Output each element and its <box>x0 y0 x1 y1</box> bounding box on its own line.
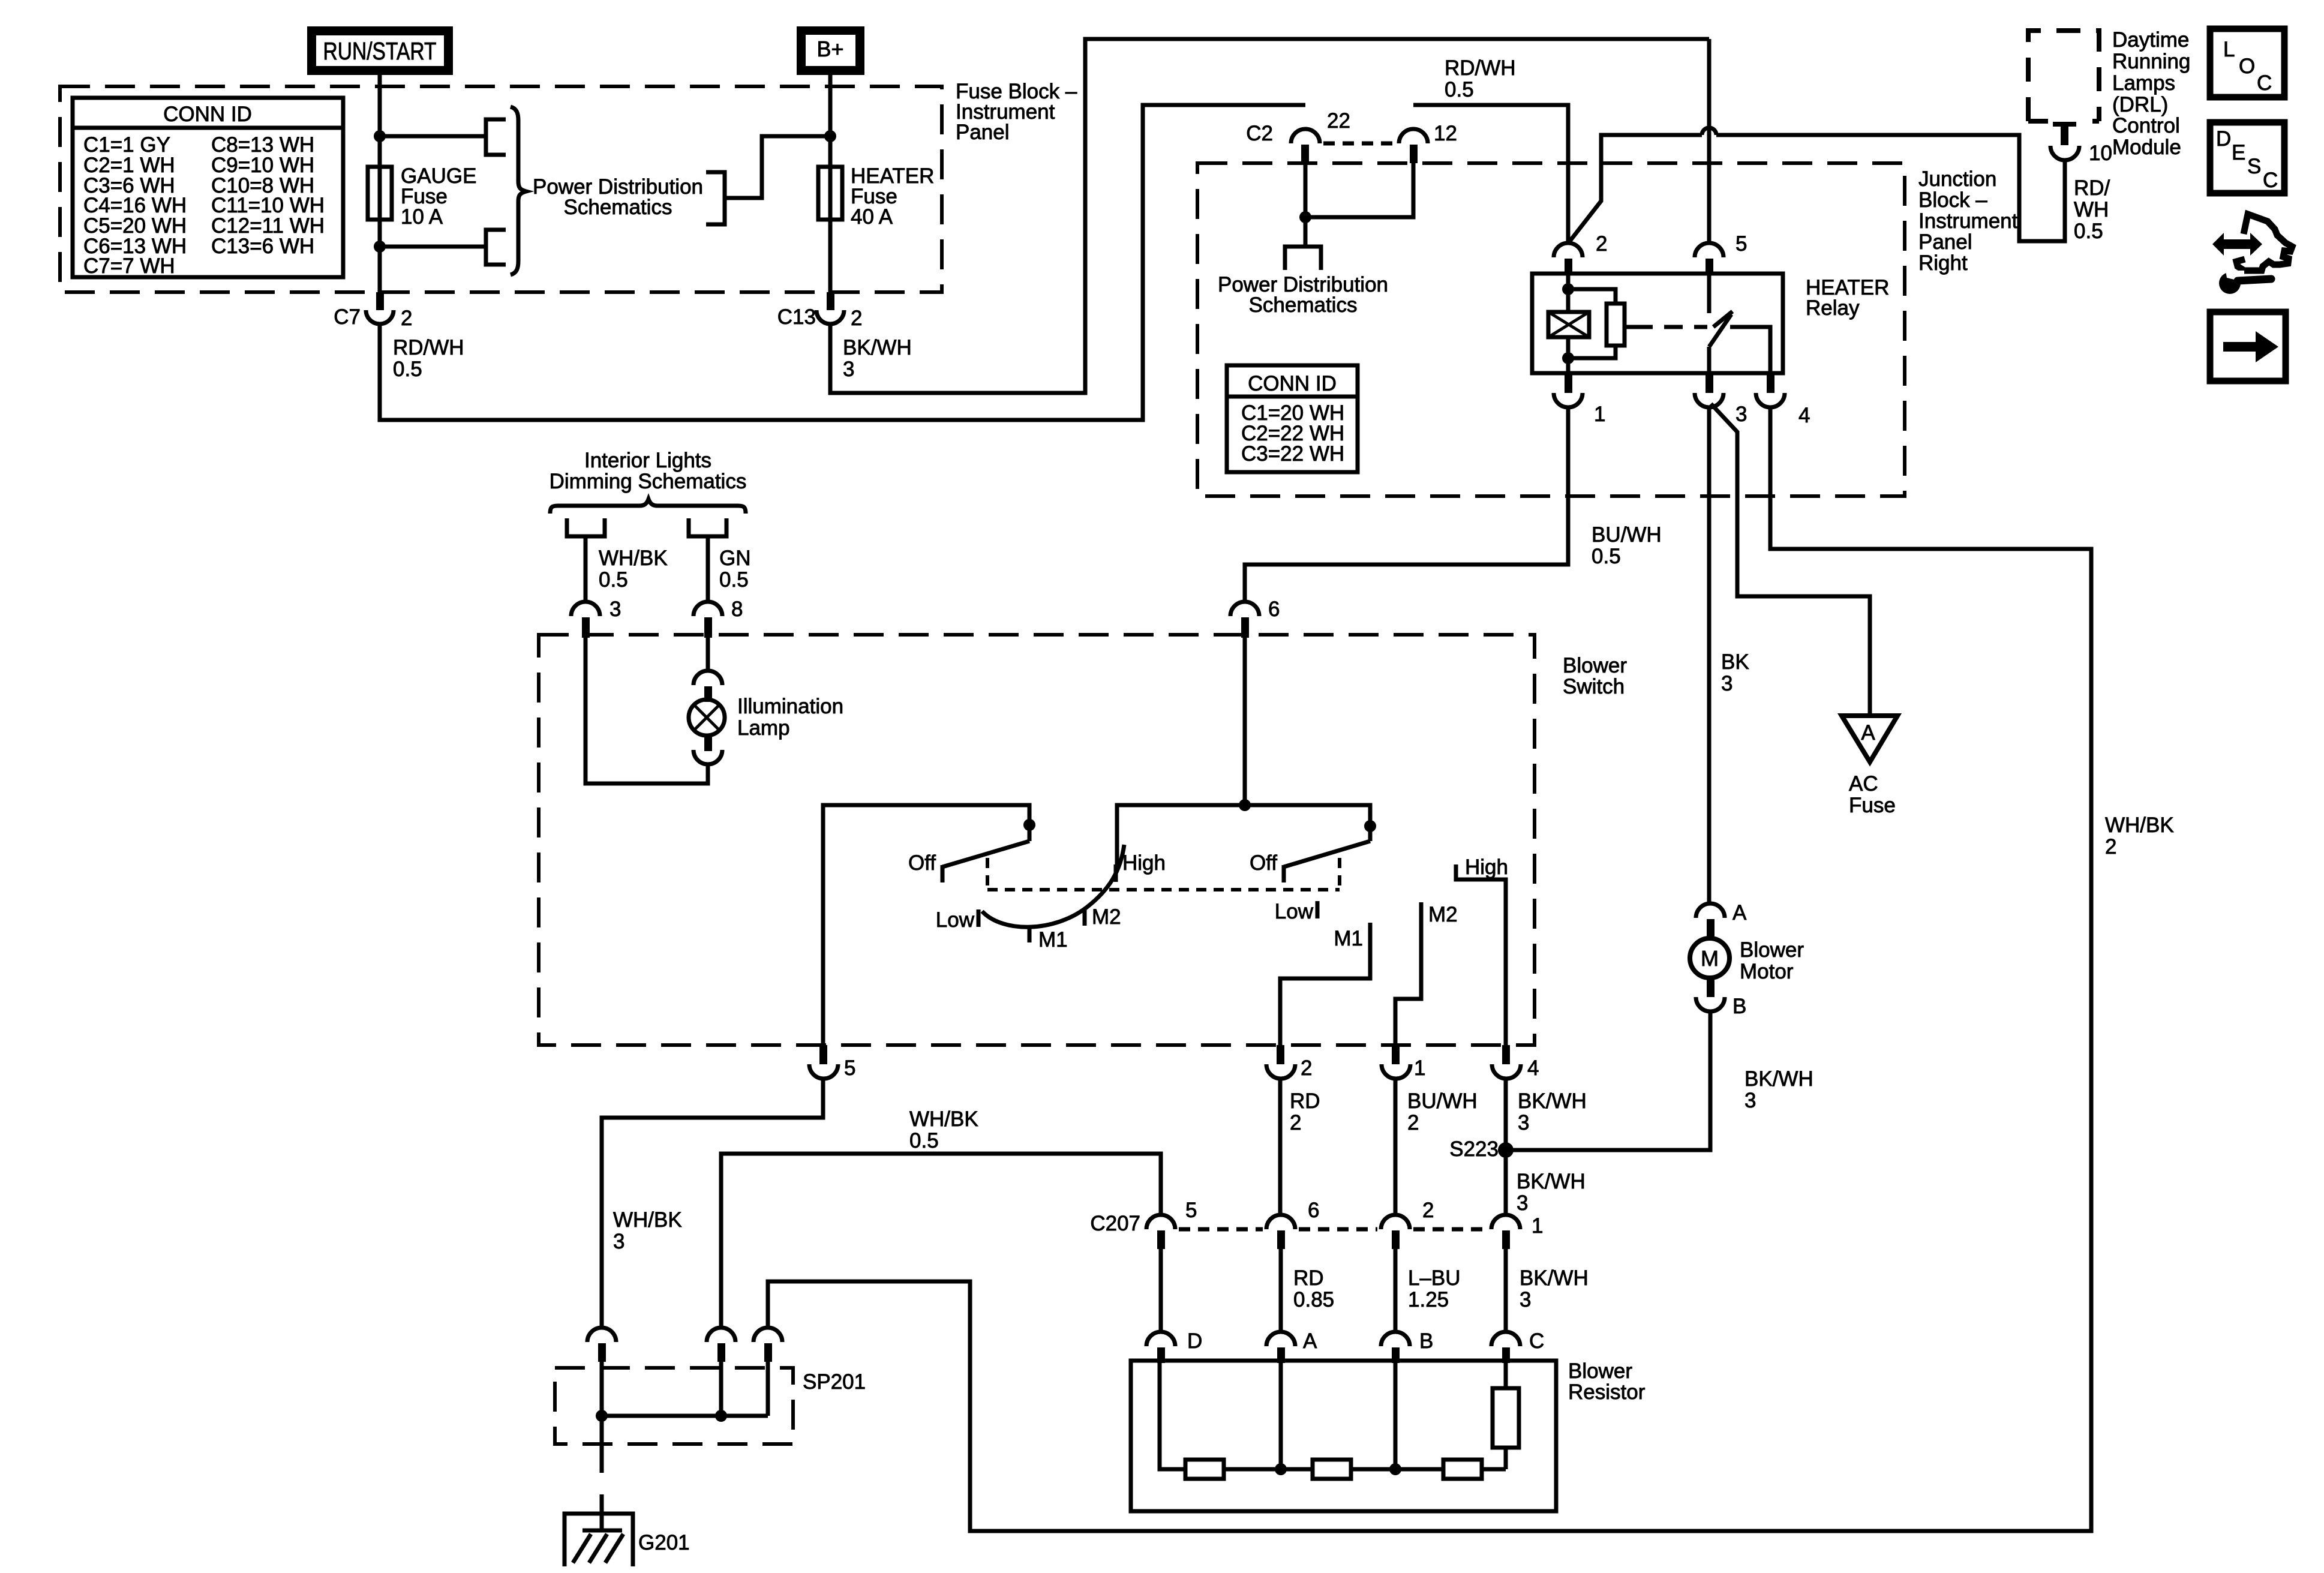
svg-text:WH/BK: WH/BK <box>909 1107 978 1131</box>
dashed jumper C2 22 to 12 <box>1323 142 1397 146</box>
svg-text:A: A <box>1303 1329 1317 1353</box>
svg-text:E: E <box>2232 141 2245 164</box>
svg-text:G201: G201 <box>638 1531 690 1554</box>
node: heater fuse top junction <box>824 130 836 142</box>
svg-text:S: S <box>2247 155 2261 178</box>
left switch High contact <box>1114 864 1118 882</box>
svg-text:0.5: 0.5 <box>909 1129 939 1152</box>
svg-text:Blower: Blower <box>1740 938 1804 962</box>
svg-text:M: M <box>1701 946 1719 971</box>
splice pack SP201 dashed box <box>555 1368 793 1444</box>
wire stem to power distribution fork <box>1304 217 1308 247</box>
relay internal resistor <box>1568 289 1634 358</box>
connector blower switch pin 5 <box>809 1045 855 1080</box>
wire lamp return to pin 3 <box>585 638 708 784</box>
node: gauge fuse top junction <box>374 130 386 142</box>
svg-text:4: 4 <box>1527 1056 1539 1080</box>
svg-text:0.85: 0.85 <box>1293 1288 1334 1311</box>
connector blower resistor pin D <box>1146 1329 1202 1363</box>
svg-text:C: C <box>1529 1329 1544 1353</box>
svg-text:BK/WH: BK/WH <box>843 336 912 359</box>
blower switch dashed box <box>539 635 1535 1045</box>
off-page socket right (GN) <box>689 518 726 536</box>
switch feed bus right segment <box>1117 805 1370 864</box>
svg-text:Fuse: Fuse <box>1849 794 1896 817</box>
svg-text:40 A: 40 A <box>851 205 893 229</box>
svg-text:M2: M2 <box>1428 903 1458 926</box>
svg-text:AC: AC <box>1849 772 1878 795</box>
off-page bracket (heater feed) <box>706 172 725 224</box>
svg-text:BK/WH: BK/WH <box>1517 1170 1586 1193</box>
wire SP201 to ground <box>600 1416 604 1473</box>
svg-text:Interior Lights: Interior Lights <box>584 449 711 472</box>
connector C207 pin 6 <box>1266 1199 1319 1249</box>
wire jumper to pin 12 <box>1305 163 1413 217</box>
svg-text:RD: RD <box>1293 1266 1324 1290</box>
svg-text:Blower: Blower <box>1568 1359 1632 1383</box>
svg-text:3: 3 <box>1517 1191 1528 1215</box>
right switch M1 contact wire to pin 2 <box>1280 923 1370 1045</box>
svg-text:BU/WH: BU/WH <box>1407 1089 1478 1113</box>
daytime running lamps DRL control module dashed box <box>2028 31 2099 121</box>
relay actuator dashed line <box>1634 325 1707 329</box>
svg-text:2: 2 <box>1407 1111 1419 1134</box>
wire BU/WH 0.5 from relay pin 1 to blower switch pin 6 <box>1245 407 1568 602</box>
svg-text:3: 3 <box>1721 672 1733 695</box>
wire RD 2 from switch pin 2 to C207 <box>1278 1079 1283 1215</box>
AC fuse symbol <box>1842 716 1897 817</box>
svg-text:Motor: Motor <box>1740 960 1794 983</box>
svg-text:0.5: 0.5 <box>599 568 628 592</box>
svg-text:10 A: 10 A <box>401 205 443 229</box>
svg-text:C2: C2 <box>1246 122 1273 145</box>
power feed label RUN/START <box>307 26 453 75</box>
wire pin 6 to switch bus <box>1243 638 1247 805</box>
svg-text:WH/BK: WH/BK <box>599 547 668 570</box>
blower resistor box <box>1131 1361 1556 1511</box>
connector blower switch pin 1 <box>1382 1045 1425 1080</box>
svg-text:2: 2 <box>851 307 862 330</box>
left switch Low contact <box>977 909 981 927</box>
svg-text:Off: Off <box>1250 851 1277 875</box>
svg-text:1: 1 <box>1594 403 1605 426</box>
svg-text:C: C <box>2257 71 2272 95</box>
svg-text:5: 5 <box>1736 232 1747 256</box>
node: gauge fuse bottom junction <box>374 241 386 253</box>
connector blower resistor pin B <box>1381 1329 1433 1363</box>
brace: power distribution schematics <box>511 107 526 275</box>
svg-text:M1: M1 <box>1334 927 1363 950</box>
svg-text:1: 1 <box>1414 1056 1425 1080</box>
fuse GAUGE 10A <box>368 167 392 220</box>
svg-text:BK/WH: BK/WH <box>1518 1089 1587 1113</box>
svg-text:C207: C207 <box>1090 1212 1140 1235</box>
connector pin 12 <box>1399 122 1457 163</box>
node: bus to pin 6 <box>1239 799 1251 811</box>
wire RD 0.85 C207-6 down to A <box>1279 1249 1283 1332</box>
svg-text:Low: Low <box>936 908 975 932</box>
switch linkage dashed line <box>987 888 1340 891</box>
svg-text:A: A <box>1733 901 1747 924</box>
wire branch to AC fuse <box>1711 404 1870 716</box>
junction block internal wire to DRL module <box>1569 135 1702 242</box>
off-page bracket bottom <box>486 230 506 265</box>
svg-text:C7=7 WH: C7=7 WH <box>83 254 175 278</box>
svg-text:8: 8 <box>731 598 743 621</box>
off-page bracket top <box>486 119 506 155</box>
connector SP201 pin (WH/BK 3) <box>587 1328 616 1362</box>
svg-text:2: 2 <box>1422 1199 1434 1222</box>
blower resistor internals <box>1160 1361 1519 1479</box>
svg-text:2: 2 <box>1301 1056 1312 1080</box>
connector lamp top <box>693 671 722 702</box>
svg-text:Running: Running <box>2112 50 2190 73</box>
splice S223 <box>1498 1142 1514 1158</box>
wire WH/BK 2 from relay pin 4 <box>768 407 2091 1531</box>
svg-text:2: 2 <box>1596 232 1607 256</box>
svg-text:Lamps: Lamps <box>2112 71 2175 95</box>
svg-text:5: 5 <box>844 1056 855 1080</box>
connector relay pin 3 <box>1695 373 1747 426</box>
connector SP201 pin (WH/BK 2) <box>753 1328 782 1362</box>
svg-text:Panel: Panel <box>956 121 1010 144</box>
wire B+ feed into relay pin 5 <box>1707 39 1712 242</box>
svg-text:C13=6 WH: C13=6 WH <box>211 235 314 258</box>
svg-text:10: 10 <box>2089 142 2112 165</box>
wire: gauge fuse top branch to power distribution <box>380 134 486 139</box>
relay coil (box with X) <box>1548 312 1589 337</box>
CONN ID table (fuse block) <box>73 98 343 278</box>
wire BK/WH 3 from C13 <box>830 39 1709 393</box>
svg-text:Low: Low <box>1275 900 1314 923</box>
connector blower switch pin 8 <box>693 598 743 638</box>
svg-text:High: High <box>1465 855 1508 879</box>
wire BK/WH 3 from switch pin 4 to C207 via S223 <box>1504 1079 1508 1215</box>
switch feed bus left segment <box>823 805 1029 1045</box>
svg-text:Schematics: Schematics <box>564 196 672 219</box>
svg-text:5: 5 <box>1185 1199 1197 1222</box>
CONN ID table (junction block) <box>1227 365 1358 472</box>
svg-text:WH/BK: WH/BK <box>2105 813 2174 837</box>
svg-text:GN: GN <box>719 547 751 570</box>
svg-text:Block –: Block – <box>1918 188 1987 212</box>
svg-text:22: 22 <box>1327 109 1350 133</box>
connector blower switch pin 4 <box>1492 1045 1539 1080</box>
svg-text:WH: WH <box>2074 198 2109 221</box>
svg-text:Module: Module <box>2112 136 2181 159</box>
connector DRL pin 10 <box>2050 122 2112 165</box>
junction block dashed box <box>1197 163 1905 496</box>
svg-text:Lamp: Lamp <box>737 716 790 740</box>
wire C207-6 to resistor D? no: C207 pin5 column down to blower resistor D <box>1159 1249 1163 1332</box>
node: right switch pivot <box>1364 820 1376 832</box>
illumination lamp <box>689 695 843 740</box>
relay HEATER box <box>1532 274 1783 373</box>
right switch Low contact <box>1316 901 1320 918</box>
svg-text:Blower: Blower <box>1563 654 1627 677</box>
svg-text:RD/WH: RD/WH <box>1445 56 1516 80</box>
svg-text:D: D <box>1187 1329 1202 1353</box>
svg-text:6: 6 <box>1268 598 1280 621</box>
relay switch contact <box>1709 274 1770 373</box>
svg-text:L–BU: L–BU <box>1408 1266 1461 1290</box>
svg-text:M1: M1 <box>1038 928 1068 951</box>
fuse HEATER 40A <box>818 167 842 220</box>
connector C7 pin 2 <box>334 292 412 330</box>
svg-text:B+: B+ <box>816 37 843 61</box>
connector blower switch pin 6 <box>1230 598 1280 638</box>
blower motor <box>1690 938 1804 983</box>
wire BU/WH 2 from switch pin 1 to C207 <box>1394 1079 1398 1215</box>
svg-text:Junction: Junction <box>1918 167 1996 191</box>
svg-text:SP201: SP201 <box>803 1370 866 1394</box>
svg-text:Illumination: Illumination <box>737 695 843 718</box>
off-page socket left (WH/BK) <box>567 518 605 536</box>
connector relay pin 4 <box>1756 373 1810 427</box>
connector relay pin 5 <box>1695 232 1747 275</box>
connector relay pin 1 <box>1554 373 1605 426</box>
svg-text:RUN/START: RUN/START <box>323 37 437 65</box>
svg-text:B: B <box>1733 995 1746 1018</box>
svg-text:BK/WH: BK/WH <box>1520 1266 1589 1290</box>
svg-text:1.25: 1.25 <box>1408 1288 1449 1311</box>
connector blower motor pin A <box>1696 901 1747 938</box>
left switch blade <box>942 841 1029 867</box>
svg-text:Resistor: Resistor <box>1568 1380 1646 1404</box>
left switch dashed riser <box>986 858 989 890</box>
svg-text:CONN ID: CONN ID <box>163 103 252 126</box>
svg-text:CONN ID: CONN ID <box>1248 372 1337 395</box>
svg-text:0.5: 0.5 <box>2074 220 2103 243</box>
wire RD/WH 0.5 from C7 <box>380 105 1305 420</box>
svg-text:Right: Right <box>1918 251 1968 275</box>
svg-text:D: D <box>2216 127 2231 151</box>
svg-text:2: 2 <box>401 307 412 330</box>
svg-text:Switch: Switch <box>1563 675 1625 698</box>
svg-text:S223: S223 <box>1449 1137 1499 1161</box>
svg-text:0.5: 0.5 <box>1592 545 1621 568</box>
right switch Off contact <box>1282 865 1286 882</box>
svg-text:6: 6 <box>1308 1199 1319 1222</box>
connector blower resistor pin A <box>1266 1329 1317 1363</box>
dashed jumper C207 row <box>1179 1227 1263 1232</box>
svg-text:0.5: 0.5 <box>719 568 749 592</box>
svg-text:L: L <box>2223 38 2235 61</box>
svg-text:C7: C7 <box>334 305 361 329</box>
wire RD/WH 0.5 from pin 12 to relay pin 2 <box>1413 105 1568 242</box>
wire inside junction block from C2 <box>1304 163 1308 217</box>
svg-text:Relay: Relay <box>1806 296 1860 320</box>
wire WH/BK 0.5 to blower switch pin 3 <box>584 536 588 602</box>
wire from RUN/START down through gauge fuse <box>378 75 382 292</box>
svg-text:BK/WH: BK/WH <box>1744 1067 1813 1091</box>
svg-text:2: 2 <box>2105 835 2116 858</box>
right switch High contact wire to pin 4 <box>1456 864 1506 1045</box>
svg-text:Daytime: Daytime <box>2112 28 2189 52</box>
node: junction below C2 <box>1299 211 1311 223</box>
wire: heater fuse branch from bracket <box>725 136 830 198</box>
wire BK 3 from relay pin 3 to blower motor <box>1707 407 1712 903</box>
connector C207 pin 5 <box>1090 1199 1197 1249</box>
svg-text:3: 3 <box>1736 403 1747 426</box>
icon car with arrow and wrench <box>2212 214 2292 294</box>
wire WH/BK 0.5 from C207 pin 5 to SP201 <box>721 1154 1161 1328</box>
wire BK/WH 3 C207-1 down to C <box>1504 1249 1508 1332</box>
connector C2 pin 22 <box>1246 109 1350 163</box>
SP201 internal wires <box>600 1362 604 1416</box>
svg-text:Panel: Panel <box>1918 230 1972 254</box>
relay coil wire <box>1566 274 1571 312</box>
svg-text:(DRL): (DRL) <box>2112 93 2168 116</box>
svg-text:3: 3 <box>843 358 854 381</box>
right switch blade <box>1284 841 1370 867</box>
svg-text:High: High <box>1122 851 1166 875</box>
svg-text:C3=22 WH: C3=22 WH <box>1241 442 1344 466</box>
left switch M1 contact <box>1028 925 1032 942</box>
wire hop over pin5 feed <box>1702 128 1716 135</box>
svg-text:4: 4 <box>1798 404 1810 427</box>
svg-text:3: 3 <box>613 1230 624 1253</box>
illumination lamp wiring <box>706 638 710 671</box>
svg-text:O: O <box>2239 55 2255 78</box>
connector C13 pin 2 <box>777 292 863 330</box>
connector blower switch pin 3 <box>571 598 621 638</box>
icon DESC box <box>2210 122 2284 193</box>
svg-text:C13: C13 <box>777 305 816 329</box>
connector lamp bottom <box>693 736 722 764</box>
connector blower switch pin 2 <box>1266 1045 1312 1080</box>
svg-text:3: 3 <box>1744 1089 1756 1112</box>
fuse block dashed box <box>60 86 942 292</box>
wire: gauge fuse bottom branch to power distribution <box>380 245 486 249</box>
connector SP201 pin (WH/BK 0.5) <box>707 1328 735 1362</box>
svg-text:RD/: RD/ <box>2074 176 2110 200</box>
svg-text:Off: Off <box>908 851 936 875</box>
ground G201 <box>565 1514 690 1566</box>
wire from B+ down through heater fuse <box>828 75 833 292</box>
svg-text:WH/BK: WH/BK <box>613 1208 682 1232</box>
svg-text:B: B <box>1419 1329 1433 1353</box>
svg-text:BU/WH: BU/WH <box>1592 523 1662 547</box>
svg-text:3: 3 <box>1518 1111 1529 1134</box>
node: left switch pivot <box>1023 819 1035 831</box>
brace under interior lights label <box>550 499 746 514</box>
left switch Off contact <box>941 865 945 882</box>
svg-text:RD/WH: RD/WH <box>393 336 464 359</box>
wire WH/BK 3 from switch pin 5 to SP201 <box>602 1079 823 1328</box>
connector relay pin 2 <box>1554 232 1607 275</box>
icon LOC box <box>2210 29 2284 97</box>
wire BK/WH 3 from motor B to S223 <box>1506 1011 1710 1150</box>
wire L-BU 1.25 C207-2 down to B <box>1394 1249 1398 1332</box>
svg-text:2: 2 <box>1290 1111 1301 1134</box>
right switch M2 contact wire to pin 1 <box>1395 902 1421 1045</box>
svg-text:0.5: 0.5 <box>393 358 422 381</box>
svg-text:Control: Control <box>2112 114 2180 137</box>
connector C207 pin 2 <box>1381 1199 1434 1249</box>
svg-text:Instrument: Instrument <box>1918 209 2018 233</box>
svg-text:A: A <box>1861 721 1875 745</box>
icon arrow box <box>2210 312 2286 381</box>
left switch wiper arc <box>982 845 1124 927</box>
svg-text:12: 12 <box>1434 122 1457 145</box>
svg-text:C: C <box>2263 169 2278 192</box>
svg-text:0.5: 0.5 <box>1445 78 1474 101</box>
connector blower resistor pin C <box>1491 1329 1544 1363</box>
connector C207 pin 1 <box>1491 1214 1543 1249</box>
connector blower motor pin B <box>1696 978 1746 1018</box>
power distribution fork <box>1285 247 1321 270</box>
svg-text:RD: RD <box>1290 1089 1320 1113</box>
wire GN 0.5 to blower switch pin 8 <box>706 536 710 602</box>
svg-text:BK: BK <box>1721 650 1749 674</box>
svg-text:3: 3 <box>609 598 621 621</box>
svg-text:Schematics: Schematics <box>1249 293 1358 317</box>
svg-text:Dimming Schematics: Dimming Schematics <box>550 470 747 493</box>
right switch dashed riser <box>1338 858 1341 890</box>
power feed label B+ <box>797 26 864 75</box>
svg-text:3: 3 <box>1520 1288 1531 1311</box>
svg-text:1: 1 <box>1532 1214 1543 1238</box>
svg-text:M2: M2 <box>1092 905 1121 929</box>
left switch M2 contact <box>1083 909 1087 926</box>
